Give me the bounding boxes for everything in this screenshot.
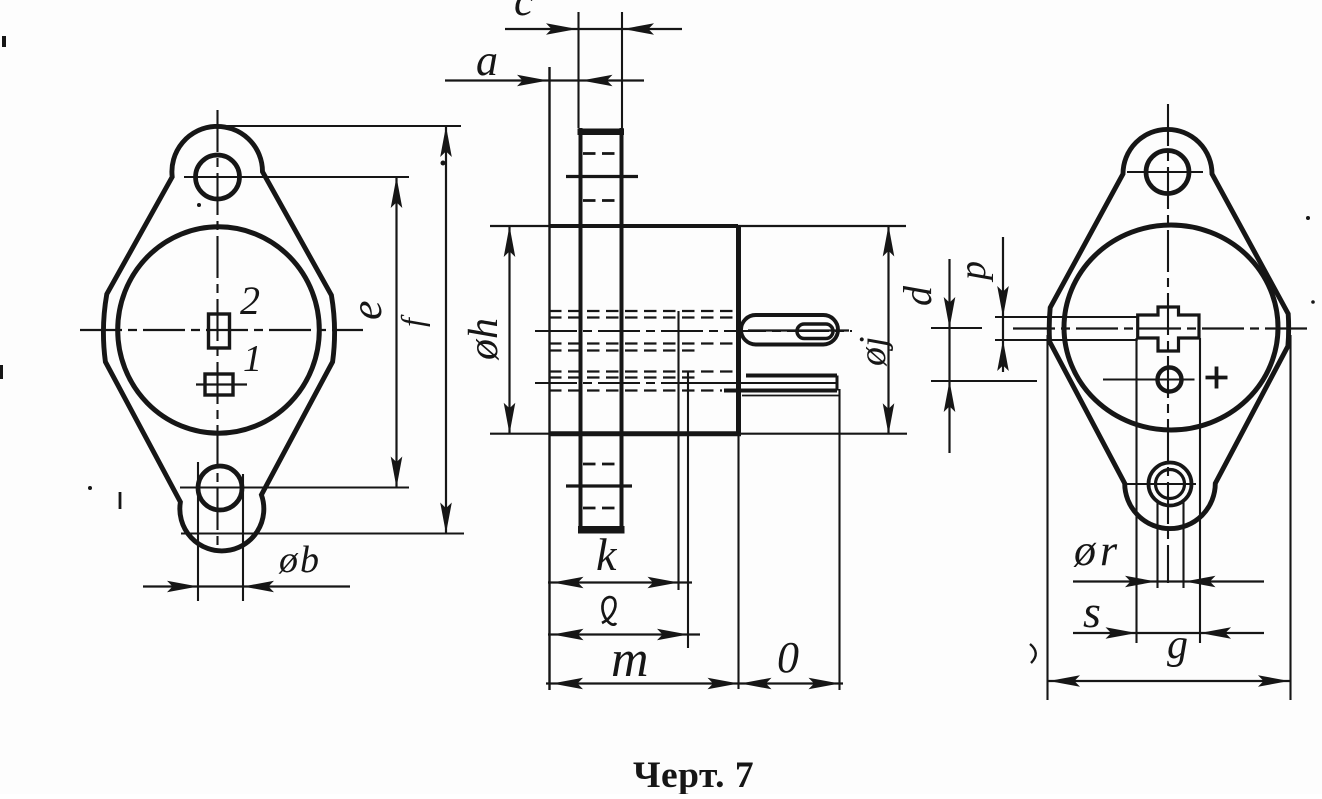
svg-text:Черт. 7: Черт. 7 — [633, 755, 754, 794]
svg-text:s: s — [1083, 586, 1101, 637]
svg-text:g: g — [1167, 622, 1188, 668]
svg-text:1: 1 — [243, 338, 262, 380]
svg-text:k: k — [596, 529, 618, 580]
svg-text:øj: øj — [852, 336, 894, 367]
svg-text:a: a — [476, 36, 498, 85]
svg-text:c: c — [514, 0, 534, 25]
svg-text:d: d — [895, 285, 940, 306]
svg-text:2: 2 — [240, 278, 260, 323]
svg-text:e: e — [342, 300, 391, 320]
svg-text:p: p — [952, 261, 994, 283]
svg-text:øb: øb — [278, 539, 321, 581]
svg-text:ør: ør — [1073, 526, 1121, 575]
svg-text:0: 0 — [777, 633, 799, 682]
svg-text:m: m — [611, 631, 649, 688]
svg-text:øh: øh — [461, 318, 507, 361]
